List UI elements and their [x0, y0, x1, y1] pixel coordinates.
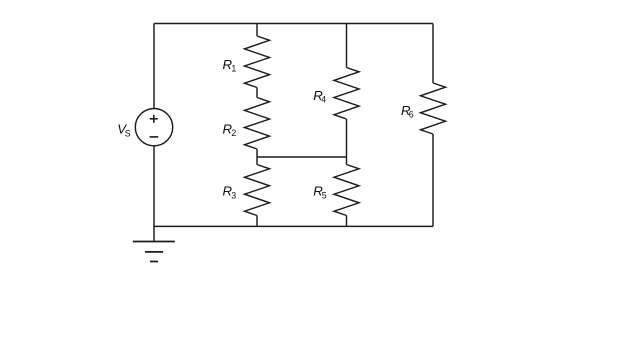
svg-text:6: 6	[409, 110, 414, 120]
svg-text:3: 3	[231, 191, 236, 201]
svg-text:4: 4	[321, 95, 326, 105]
svg-text:2: 2	[231, 128, 236, 138]
svg-text:S: S	[125, 128, 131, 138]
svg-text:1: 1	[231, 64, 236, 74]
svg-text:5: 5	[322, 191, 327, 201]
